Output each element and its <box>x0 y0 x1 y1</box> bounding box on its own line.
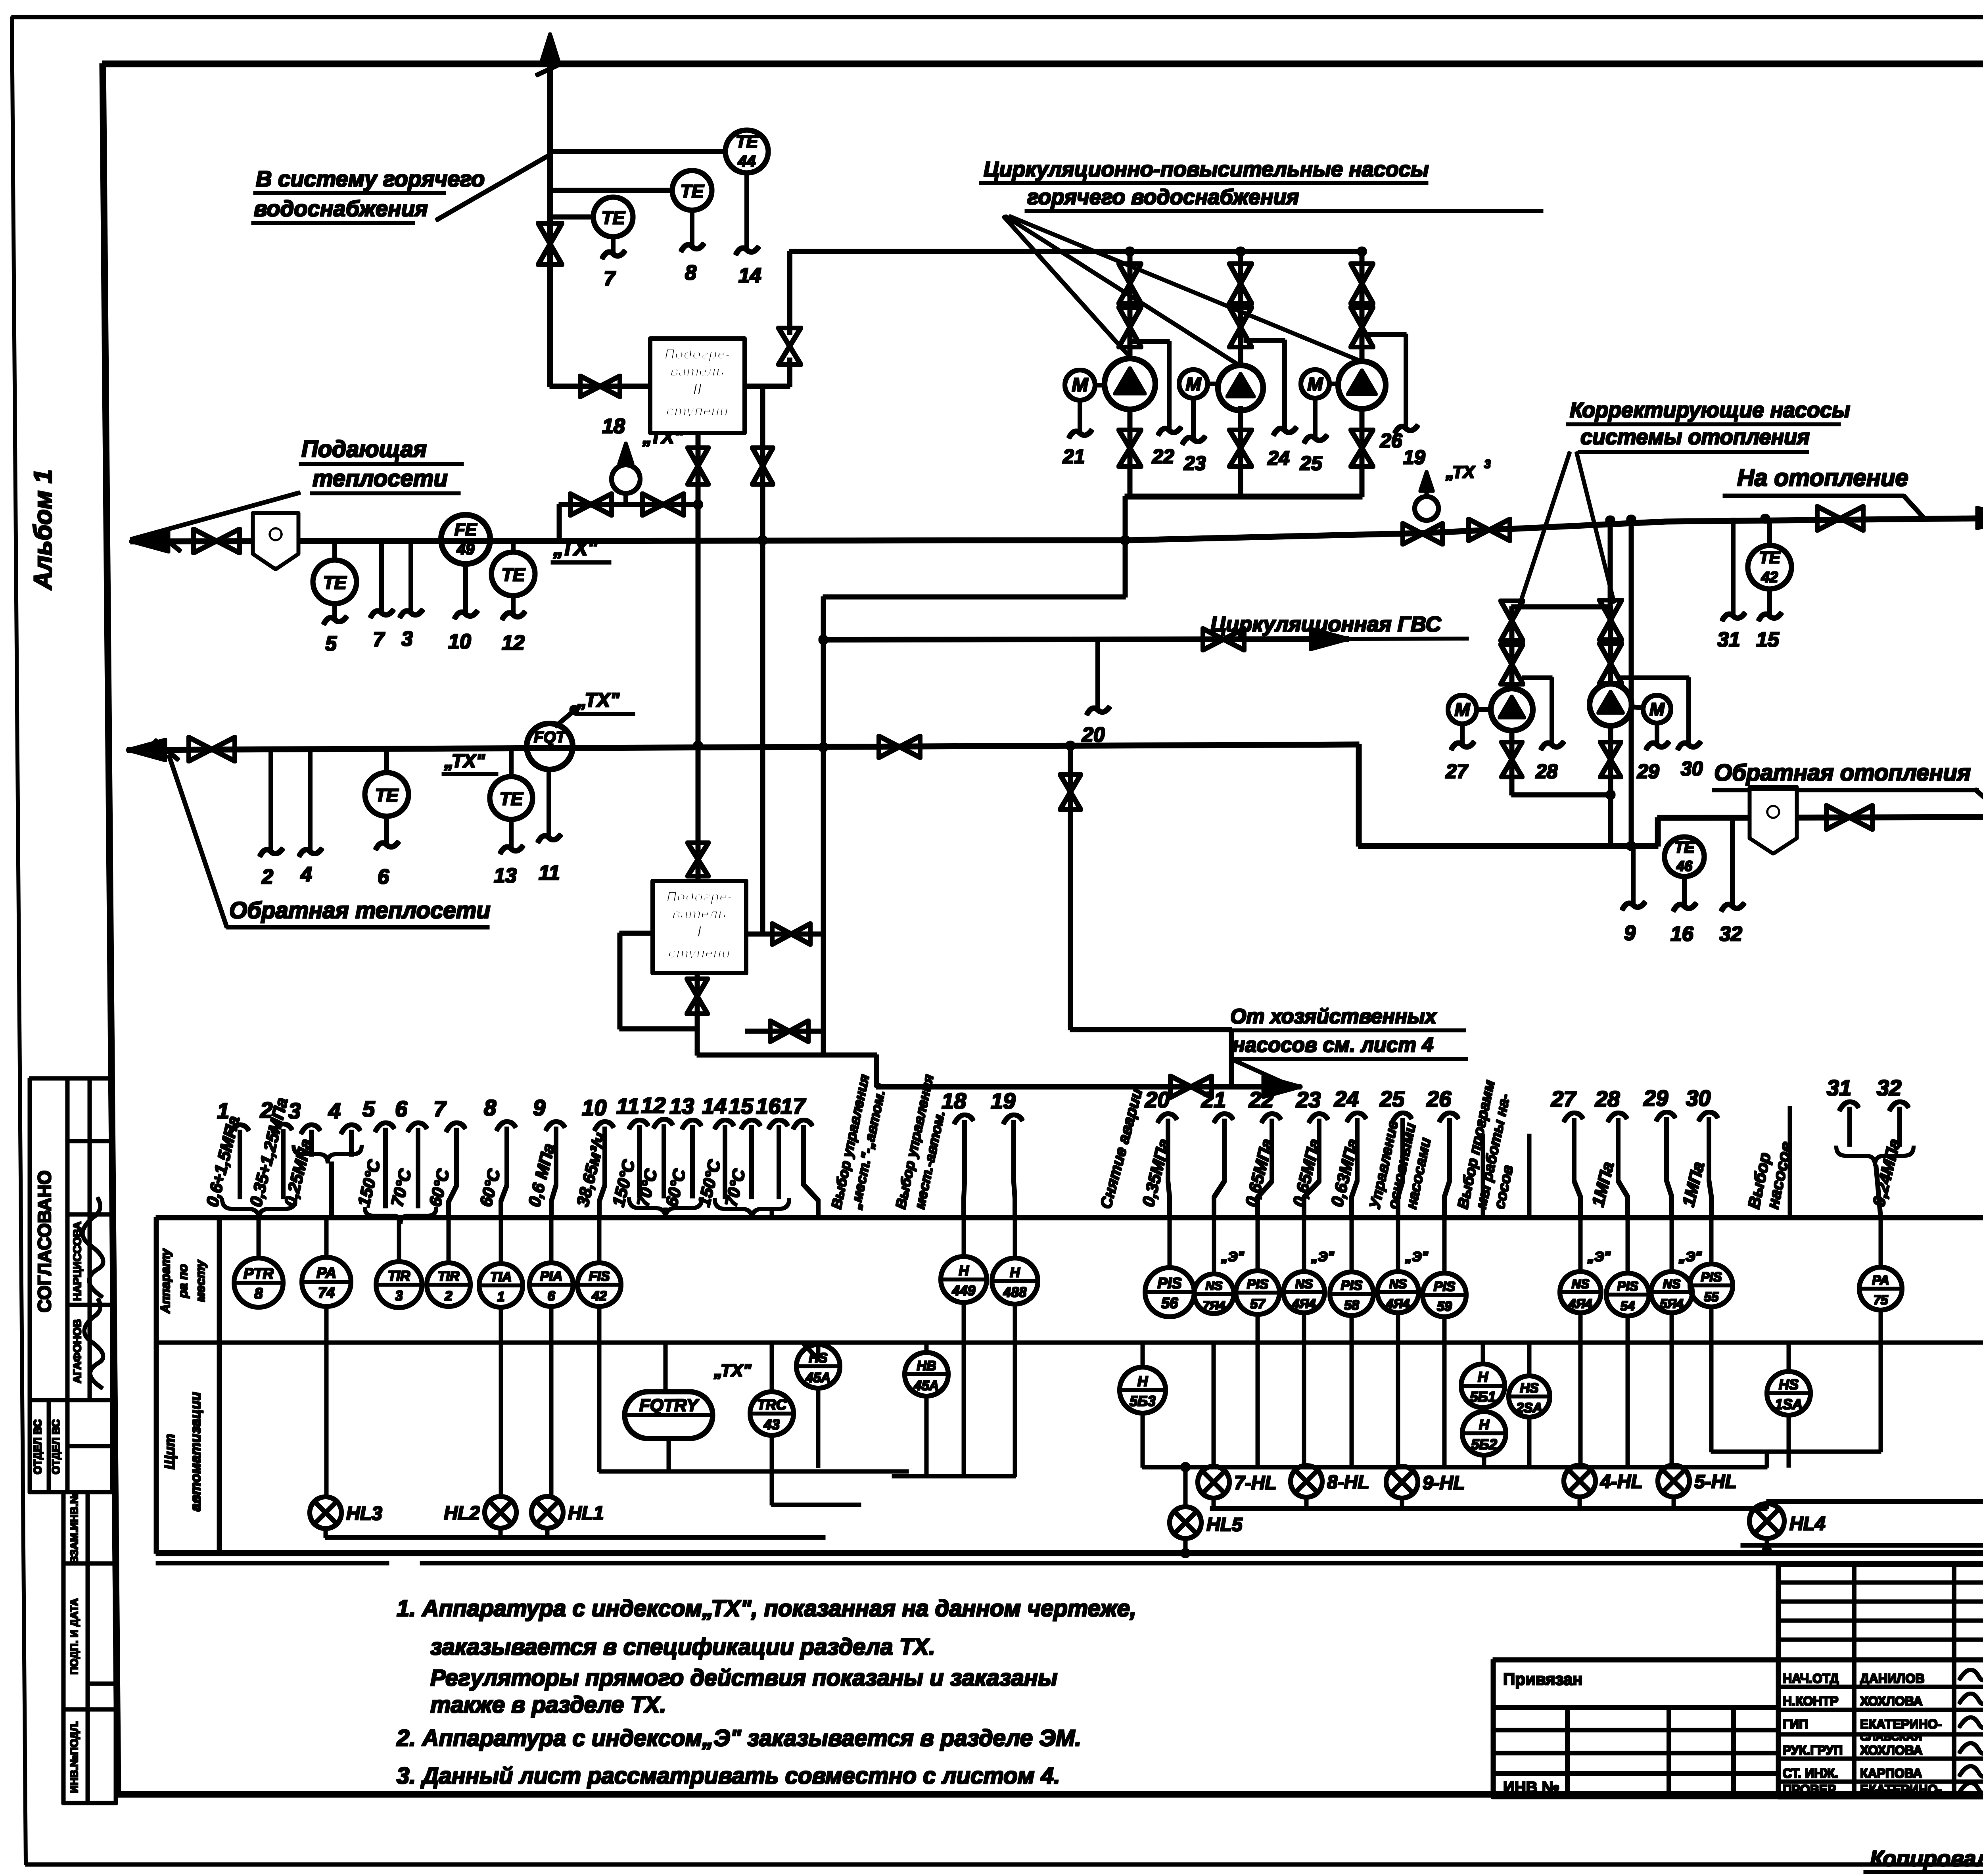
svg-text:TIR: TIR <box>438 1269 460 1284</box>
svg-text:43: 43 <box>763 1416 780 1433</box>
svg-text:ТЕ: ТЕ <box>736 132 759 152</box>
svg-text:Н: Н <box>1479 1416 1490 1433</box>
svg-text:5-HL: 5-HL <box>1694 1471 1737 1492</box>
svg-text:Подогре-: Подогре- <box>666 888 732 905</box>
svg-text:ТЕ: ТЕ <box>602 207 625 228</box>
svg-text:В систему горячего: В систему горячего <box>256 166 485 191</box>
svg-text:Циркуляционно-повысительные на: Циркуляционно-повысительные насосы <box>984 157 1429 181</box>
svg-text:Альбом 1: Альбом 1 <box>29 469 57 590</box>
svg-text:также в разделе ТХ.: также в разделе ТХ. <box>430 1692 666 1718</box>
svg-text:PIS: PIS <box>1701 1270 1722 1284</box>
svg-text:10: 10 <box>582 1095 606 1120</box>
svg-text:29: 29 <box>1637 760 1659 783</box>
svg-text:PIS: PIS <box>1341 1278 1363 1293</box>
svg-text:NS: NS <box>1389 1277 1407 1291</box>
svg-text:5: 5 <box>362 1096 375 1121</box>
svg-text:ступени: ступени <box>666 403 729 419</box>
svg-text:Обратная теплосети: Обратная теплосети <box>229 898 491 923</box>
svg-text:PTR: PTR <box>244 1266 274 1282</box>
svg-text:56: 56 <box>1161 1295 1178 1312</box>
svg-text:HS: HS <box>809 1350 828 1366</box>
svg-text:Циркуляционная ГВС: Циркуляционная ГВС <box>1210 612 1442 636</box>
svg-text:22: 22 <box>1248 1087 1273 1112</box>
svg-text:PA: PA <box>1872 1273 1889 1287</box>
svg-text:2SA: 2SA <box>1516 1400 1542 1416</box>
svg-text:TIR: TIR <box>388 1268 410 1284</box>
svg-text:8: 8 <box>685 261 696 284</box>
svg-text:11: 11 <box>539 861 560 884</box>
svg-text:Подающая: Подающая <box>301 436 427 462</box>
svg-text:25: 25 <box>1379 1086 1405 1111</box>
svg-text:9: 9 <box>1624 922 1636 945</box>
svg-text:7Я4: 7Я4 <box>1202 1299 1225 1312</box>
svg-text:На отопление: На отопление <box>1737 464 1908 491</box>
svg-text:ХОХЛОВА: ХОХЛОВА <box>1860 1694 1923 1708</box>
svg-text:ХОХЛОВА: ХОХЛОВА <box>1860 1743 1923 1757</box>
svg-text:30: 30 <box>1681 758 1703 780</box>
svg-text:Н: Н <box>1010 1265 1020 1280</box>
svg-text:PIS: PIS <box>1617 1279 1638 1293</box>
svg-text:3: 3 <box>401 627 413 650</box>
svg-text:28: 28 <box>1535 760 1558 783</box>
svg-text:Н.КОНТР: Н.КОНТР <box>1783 1694 1838 1708</box>
svg-text:ТЕ: ТЕ <box>502 564 525 585</box>
svg-text:TRC: TRC <box>757 1396 787 1413</box>
svg-text:„Э": „Э" <box>1221 1249 1244 1264</box>
svg-text:месту: месту <box>193 1259 207 1302</box>
svg-text:4Я4: 4Я4 <box>1292 1297 1316 1311</box>
svg-text:4-HL: 4-HL <box>1600 1471 1643 1492</box>
svg-text:М: М <box>1455 699 1471 720</box>
svg-text:ТЕ: ТЕ <box>500 788 524 809</box>
svg-text:Н: Н <box>1478 1369 1488 1385</box>
svg-text:Н: Н <box>959 1263 969 1279</box>
svg-text:6: 6 <box>395 1096 408 1121</box>
svg-text:„Э": „Э" <box>1405 1249 1428 1264</box>
svg-text:ТЕ: ТЕ <box>323 572 347 593</box>
svg-text:HS: HS <box>1520 1381 1539 1396</box>
svg-text:„ТХ": „ТХ" <box>713 1361 752 1380</box>
svg-text:системы отопления: системы отопления <box>1580 425 1810 449</box>
svg-text:18: 18 <box>942 1088 967 1113</box>
svg-text:7-HL: 7-HL <box>1234 1473 1277 1494</box>
svg-text:„ТХ": „ТХ" <box>553 537 598 560</box>
svg-text:23: 23 <box>1183 452 1206 474</box>
svg-text:2. Аппаратура с индексом„Э" за: 2. Аппаратура с индексом„Э" заказывается… <box>396 1725 1081 1751</box>
svg-text:НВ: НВ <box>917 1358 936 1373</box>
svg-text:Щит: Щит <box>161 1434 178 1469</box>
svg-text:24: 24 <box>1267 447 1290 469</box>
svg-text:ра по: ра по <box>176 1264 190 1298</box>
svg-text:HL1: HL1 <box>568 1503 604 1524</box>
svg-text:TIA: TIA <box>490 1270 512 1285</box>
svg-text:ИНВ.№ПОДЛ.: ИНВ.№ПОДЛ. <box>68 1721 80 1793</box>
svg-text:22: 22 <box>1152 445 1174 468</box>
svg-text:28: 28 <box>1595 1086 1620 1111</box>
svg-text:31: 31 <box>1827 1075 1851 1100</box>
svg-text:М: М <box>1308 374 1323 394</box>
svg-text:„ТХ": „ТХ" <box>444 751 485 772</box>
svg-text:ЕКАТЕРИНО-: ЕКАТЕРИНО- <box>1860 1717 1942 1731</box>
svg-text:42: 42 <box>1761 569 1778 586</box>
svg-text:Аппарату: Аппарату <box>158 1248 173 1314</box>
svg-text:488: 488 <box>1003 1285 1027 1300</box>
svg-text:3: 3 <box>395 1288 403 1304</box>
svg-text:HS: HS <box>1779 1376 1799 1393</box>
svg-text:ступени: ступени <box>668 945 731 961</box>
svg-text:NS: NS <box>1572 1277 1590 1291</box>
svg-text:45А: 45А <box>805 1370 830 1385</box>
svg-text:ТЕ: ТЕ <box>375 785 399 806</box>
svg-text:3. Данный лист рассматривать с: 3. Данный лист рассматривать совместно с… <box>397 1763 1060 1789</box>
svg-text:46: 46 <box>1676 858 1693 874</box>
svg-text:NS: NS <box>1205 1279 1222 1293</box>
svg-text:16: 16 <box>756 1093 781 1118</box>
svg-text:5Б1: 5Б1 <box>1470 1389 1496 1405</box>
svg-text:27: 27 <box>1445 760 1469 783</box>
svg-text:7: 7 <box>373 628 385 651</box>
svg-text:заказывается в спецификации ра: заказывается в спецификации раздела ТХ. <box>430 1634 935 1660</box>
svg-text:26: 26 <box>1426 1086 1452 1111</box>
svg-text:HL5: HL5 <box>1206 1514 1243 1535</box>
svg-text:КАРПОВА: КАРПОВА <box>1860 1766 1922 1780</box>
svg-text:21: 21 <box>1062 445 1085 468</box>
svg-text:9-HL: 9-HL <box>1423 1473 1465 1494</box>
svg-text:45А: 45А <box>914 1378 939 1393</box>
svg-text:20: 20 <box>1145 1087 1170 1112</box>
svg-text:Копировал: Алешикова: Копировал: Алешикова <box>1870 1846 1983 1871</box>
svg-text:HL2: HL2 <box>444 1503 480 1524</box>
svg-text:5Я4: 5Я4 <box>1660 1297 1684 1311</box>
svg-text:6: 6 <box>548 1289 556 1304</box>
svg-text:ватель: ватель <box>670 363 724 379</box>
svg-text:23: 23 <box>1296 1087 1321 1112</box>
svg-text:ПОДП. И ДАТА: ПОДП. И ДАТА <box>68 1598 80 1675</box>
svg-text:PIS: PIS <box>1247 1277 1269 1292</box>
svg-text:14: 14 <box>738 264 761 287</box>
svg-text:59: 59 <box>1437 1299 1452 1314</box>
svg-text:5: 5 <box>325 632 337 655</box>
svg-text:FIS: FIS <box>589 1269 610 1284</box>
svg-text:54: 54 <box>1621 1299 1635 1313</box>
svg-text:24: 24 <box>1334 1086 1359 1111</box>
svg-text:13: 13 <box>494 864 517 887</box>
svg-text:ГИП: ГИП <box>1783 1717 1808 1731</box>
svg-text:2: 2 <box>445 1289 453 1304</box>
svg-text:25: 25 <box>1300 452 1323 474</box>
svg-text:М: М <box>1649 699 1665 719</box>
svg-text:I: I <box>697 923 702 940</box>
svg-text:31: 31 <box>1717 628 1740 651</box>
svg-text:горячего водоснабжения: горячего водоснабжения <box>1027 185 1299 209</box>
svg-text:Обратная отопления: Обратная отопления <box>1714 760 1971 786</box>
svg-text:„ТХ: „ТХ <box>1445 462 1476 482</box>
svg-text:15: 15 <box>1756 628 1780 651</box>
svg-text:ОТДЕЛ ВС: ОТДЕЛ ВС <box>50 1419 62 1474</box>
svg-text:теплосети: теплосети <box>313 466 448 491</box>
svg-text:PIS: PIS <box>1434 1279 1456 1294</box>
svg-text:449: 449 <box>952 1283 976 1299</box>
svg-text:насосов см. лист 4: насосов см. лист 4 <box>1233 1034 1434 1057</box>
svg-text:20: 20 <box>1082 723 1105 746</box>
svg-text:ТЕ: ТЕ <box>1674 839 1695 856</box>
svg-text:7: 7 <box>604 267 616 290</box>
svg-text:Подогре-: Подогре- <box>664 346 730 362</box>
svg-text:14: 14 <box>702 1093 727 1118</box>
svg-text:М: М <box>1072 374 1089 396</box>
svg-text:HL4: HL4 <box>1789 1513 1826 1535</box>
svg-text:АГАФОНОВ: АГАФОНОВ <box>71 1319 83 1383</box>
svg-text:44: 44 <box>738 153 756 170</box>
svg-text:NS: NS <box>1295 1277 1313 1291</box>
svg-text:СЛАВСКАЯ: СЛАВСКАЯ <box>1860 1788 1913 1798</box>
svg-text:НАЧ.ОТД: НАЧ.ОТД <box>1783 1671 1839 1686</box>
svg-text:водоснабжения: водоснабжения <box>254 196 428 221</box>
svg-text:4: 4 <box>328 1098 341 1123</box>
svg-text:ВЗАМ.ИНВ.№: ВЗАМ.ИНВ.№ <box>68 1492 80 1564</box>
svg-text:ватель: ватель <box>672 905 726 922</box>
svg-text:NS: NS <box>1663 1277 1681 1291</box>
svg-text:PIS: PIS <box>1157 1275 1181 1292</box>
svg-text:17: 17 <box>781 1093 806 1118</box>
svg-text:ОТДЕЛ ВС: ОТДЕЛ ВС <box>32 1419 44 1474</box>
svg-text:12: 12 <box>502 631 525 654</box>
svg-text:СОГЛАСОВАНО: СОГЛАСОВАНО <box>34 1170 55 1312</box>
svg-text:ДАНИЛОВ: ДАНИЛОВ <box>1860 1671 1924 1686</box>
svg-text:58: 58 <box>1344 1298 1359 1313</box>
svg-text:27: 27 <box>1551 1086 1577 1111</box>
svg-text:8: 8 <box>254 1285 263 1302</box>
svg-text:5Б2: 5Б2 <box>1471 1436 1497 1452</box>
svg-text:6: 6 <box>378 865 389 888</box>
svg-text:Регуляторы прямого действи: Регуляторы прямого действия показаны и з… <box>430 1665 1057 1691</box>
svg-text:15: 15 <box>729 1093 754 1118</box>
svg-text:4Я4: 4Я4 <box>1569 1297 1592 1311</box>
svg-text:1. Аппаратура с индексом„ТХ",: 1. Аппаратура с индексом„ТХ", показанная… <box>397 1596 1136 1621</box>
svg-text:4: 4 <box>300 863 312 886</box>
svg-text:ПРОВЕР.: ПРОВЕР. <box>1783 1782 1838 1797</box>
svg-text:ТЕ: ТЕ <box>681 181 704 201</box>
svg-text:Корректирующие насосы: Корректирующие насосы <box>1570 398 1850 422</box>
svg-text:II: II <box>693 381 702 398</box>
svg-text:FQTRY: FQTRY <box>639 1396 700 1415</box>
svg-text:РУК.ГРУП: РУК.ГРУП <box>1783 1743 1843 1757</box>
svg-text:„ТХ": „ТХ" <box>642 427 684 448</box>
svg-text:42: 42 <box>591 1289 607 1304</box>
svg-text:75: 75 <box>1874 1293 1888 1307</box>
svg-text:1SA: 1SA <box>1775 1396 1803 1412</box>
svg-text:26: 26 <box>1380 430 1403 452</box>
svg-text:„Э": „Э" <box>1311 1249 1334 1264</box>
svg-text:7: 7 <box>433 1096 447 1121</box>
svg-text:Привязан: Привязан <box>1503 1670 1582 1688</box>
svg-text:FQT: FQT <box>534 729 567 746</box>
svg-text:8-HL: 8-HL <box>1327 1472 1369 1493</box>
svg-text:1: 1 <box>497 1289 505 1304</box>
svg-text:18: 18 <box>602 415 625 438</box>
svg-text:9: 9 <box>533 1095 545 1120</box>
svg-text:СТ. ИНЖ.: СТ. ИНЖ. <box>1783 1766 1838 1780</box>
svg-text:СЛАВСКАЯ: СЛАВСКАЯ <box>1860 1730 1922 1743</box>
svg-text:10: 10 <box>448 630 471 653</box>
svg-text:М: М <box>1186 374 1202 394</box>
svg-text:55: 55 <box>1704 1289 1719 1304</box>
svg-text:49: 49 <box>456 541 475 558</box>
svg-text:ИНВ №: ИНВ № <box>1503 1779 1559 1796</box>
svg-text:11: 11 <box>616 1093 639 1118</box>
svg-text:3: 3 <box>1484 458 1491 471</box>
svg-text:автоматизации: автоматизации <box>187 1392 203 1511</box>
svg-text:13: 13 <box>669 1093 694 1118</box>
svg-text:PIA: PIA <box>540 1269 563 1284</box>
svg-text:74: 74 <box>318 1285 335 1301</box>
svg-text:ТЕ: ТЕ <box>1759 548 1781 567</box>
svg-text:30: 30 <box>1686 1086 1711 1111</box>
svg-text:21: 21 <box>1201 1087 1226 1112</box>
svg-text:„Э": „Э" <box>1678 1249 1702 1264</box>
svg-text:5Б3: 5Б3 <box>1130 1393 1156 1409</box>
svg-text:19: 19 <box>1403 446 1425 468</box>
svg-text:32: 32 <box>1877 1075 1901 1100</box>
svg-text:12: 12 <box>641 1093 665 1118</box>
svg-text:HL3: HL3 <box>346 1503 382 1524</box>
svg-text:8: 8 <box>484 1095 497 1120</box>
svg-text:От хозяйственных: От хозяйственных <box>1230 1005 1437 1028</box>
svg-text:29: 29 <box>1643 1086 1668 1111</box>
svg-text:19: 19 <box>991 1088 1015 1113</box>
svg-text:FE: FE <box>455 520 478 539</box>
svg-text:„ТХ": „ТХ" <box>577 689 620 711</box>
svg-text:32: 32 <box>1719 923 1742 946</box>
svg-text:2: 2 <box>261 865 273 888</box>
svg-text:16: 16 <box>1670 923 1694 946</box>
svg-text:„Э": „Э" <box>1587 1249 1611 1264</box>
svg-text:4Я4: 4Я4 <box>1386 1297 1410 1311</box>
svg-text:Н: Н <box>1137 1373 1148 1389</box>
svg-text:PA: PA <box>316 1265 336 1281</box>
svg-text:57: 57 <box>1250 1297 1266 1312</box>
